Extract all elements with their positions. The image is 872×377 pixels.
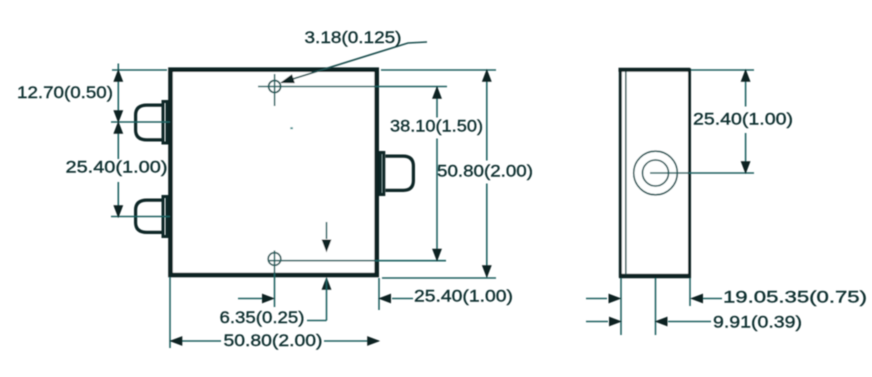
dimension line 50.80 bottom (171, 340, 222, 342)
arrow up 50.80 (483, 70, 491, 81)
hole H1 crosshair horizontal / extension to 38.10 dim (258, 86, 447, 88)
side view right edge extension below (689, 278, 691, 306)
body outline (front view) (171, 70, 377, 275)
left edge extension below body (169, 277, 171, 348)
extension line bottom-right (382, 277, 496, 279)
svg-text:50.80(2.00): 50.80(2.00) (224, 331, 323, 350)
dimension line 38.10 (436, 87, 438, 118)
side view center extension below (655, 278, 657, 335)
scan speck (290, 127, 293, 129)
svg-text:25.40(1.00): 25.40(1.00) (66, 158, 168, 177)
leader arrowhead at hole H1 (280, 75, 294, 86)
arrow down 25.40 side (741, 162, 749, 173)
side view body outline (620, 70, 689, 276)
extension line top-right (381, 69, 496, 71)
right edge extension below body (378, 278, 380, 310)
dimension line 50.80 vertical (486, 70, 488, 161)
side view connector inner circle (643, 160, 669, 186)
hole H1 (top) (269, 81, 281, 93)
arrow left 50.80 bottom (171, 337, 182, 345)
svg-text:38.10(1.50): 38.10(1.50) (390, 117, 483, 136)
connector J1 flange (top left) (163, 102, 167, 144)
svg-text:12.70(0.50): 12.70(0.50) (17, 83, 113, 102)
svg-text:25.40(1.00): 25.40(1.00) (414, 287, 513, 306)
svg-text:6.35(0.25): 6.35(0.25) (220, 308, 305, 327)
arrow right 50.80 bottom (368, 337, 379, 345)
hole H2 crosshair horizontal / extension to 38.10 dim (268, 260, 446, 262)
svg-text:19.05.35(0.75): 19.05.35(0.75) (723, 288, 867, 307)
connector J2 dome (bottom left) (136, 200, 162, 232)
arrow up 38.10 (433, 87, 441, 98)
arrow down 50.80 (483, 266, 491, 277)
connector J3 dome (right) (386, 156, 414, 190)
dimension 6.35 elbow: down arrow above bottom edge (326, 222, 328, 239)
side view lid line (625, 72, 627, 275)
svg-text:3.18(0.125): 3.18(0.125) (305, 28, 402, 47)
side view top edge (thick) (619, 68, 691, 72)
side view bottom edge (thick) (619, 274, 691, 279)
hole H2 crosshair vertical extension below body (274, 251, 276, 308)
arrow up 25.40 side (741, 70, 749, 81)
arrows meeting at J1 centerline (114, 111, 122, 122)
dimension 25.40 bottom right leader (392, 298, 413, 300)
connector J2 flange (bottom left) (163, 197, 167, 237)
arrow up at top edge (114, 70, 122, 81)
svg-text:9.91(0.39): 9.91(0.39) (713, 313, 802, 332)
hole H2 (bottom) (268, 253, 281, 266)
dimension 6.35 elbow: up arrow below bottom edge (322, 278, 330, 289)
connector J2 centerline (111, 216, 170, 218)
side view circle centerline to right (650, 172, 754, 174)
dimension 9.91 row (586, 321, 608, 323)
extension line top-left (112, 69, 167, 71)
arrow left at right edge extension (380, 294, 391, 302)
connector J1 centerline (111, 121, 170, 123)
dimension 6.35 arrow pointing right at hole line (238, 298, 262, 300)
left dimension line (12.70 / 25.40) (117, 64, 119, 160)
arrow down at J2 centerline (114, 206, 122, 217)
side view top extension line (691, 69, 754, 71)
dimension 19.05 row (586, 298, 607, 300)
side view connector outer circle (634, 151, 678, 195)
hole H1 crosshair vertical (274, 74, 276, 106)
arrow down 38.10 (433, 249, 441, 260)
connector J1 dome (top left) (136, 105, 162, 140)
leader line for 3.18(0.125) (282, 42, 428, 83)
side view left edge extension below (620, 278, 622, 335)
dimension line 25.40 side view (745, 70, 747, 107)
svg-text:25.40(1.00): 25.40(1.00) (693, 110, 793, 129)
connector J3 flange (right) (380, 153, 384, 195)
svg-text:50.80(2.00): 50.80(2.00) (437, 162, 533, 181)
